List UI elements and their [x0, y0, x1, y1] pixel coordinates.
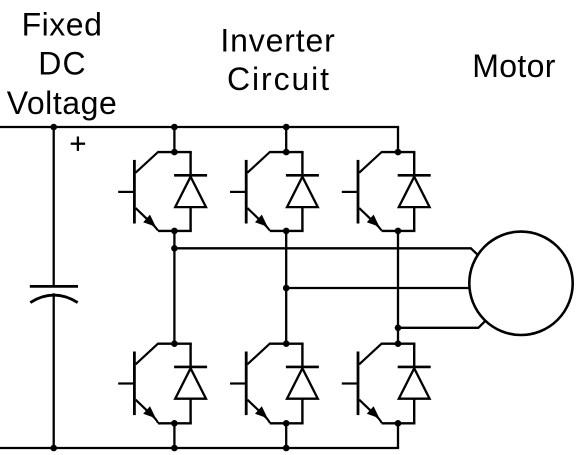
node junction capacitor / bottom bus	[50, 445, 57, 452]
svg-text:Inverter: Inverter	[220, 22, 335, 58]
wire collector segment Q4	[270, 343, 304, 345]
node emitter junction lower device leg C	[395, 420, 402, 427]
label Inverter Circuit	[220, 22, 335, 97]
node phase C output	[395, 325, 402, 332]
node junction capacitor / top bus	[50, 124, 57, 131]
wire collector segment Q5	[382, 151, 416, 153]
capacitor C1	[30, 286, 78, 302]
node junction leg A / bottom bus	[171, 445, 178, 452]
label Fixed DC Voltage	[7, 7, 118, 121]
diode D1	[174, 152, 207, 231]
wire leg A bottom (lower device to bottom bus)	[173, 423, 175, 448]
diode D4	[286, 344, 319, 424]
wire bottom DC bus (-)	[0, 447, 399, 449]
diode D5	[398, 152, 431, 231]
transistor Q1	[118, 152, 158, 231]
wire collector segment Q3	[270, 151, 304, 153]
transistor Q4	[230, 343, 270, 423]
wire collector segment Q6	[382, 343, 416, 345]
transistor Q2	[118, 343, 158, 423]
transistor Q3	[230, 152, 270, 231]
label Motor	[472, 48, 556, 84]
diode D6	[398, 344, 431, 424]
node collector junction lower device leg A	[171, 340, 178, 347]
wire leg A top drop (bus to upper device)	[173, 127, 175, 152]
svg-text:Voltage: Voltage	[7, 85, 118, 121]
wire top DC bus (+)	[0, 126, 399, 128]
wire leg C top drop (bus to upper device)	[397, 127, 399, 152]
svg-text:Motor: Motor	[472, 48, 556, 84]
wire emitter segment Q5	[382, 230, 416, 232]
svg-text:Fixed: Fixed	[22, 7, 103, 43]
wire leg B top drop (bus to upper device)	[285, 127, 287, 152]
node phase B output	[283, 285, 290, 292]
motor M1	[469, 232, 572, 335]
wire phase B output to motor	[286, 287, 470, 289]
wire capacitor bottom lead	[53, 293, 55, 448]
wire emitter segment Q4	[270, 422, 304, 424]
wire leg A middle (upper device to lower device)	[173, 231, 175, 344]
node collector junction upper device leg A	[171, 149, 178, 156]
node collector junction upper device leg C	[395, 149, 402, 156]
diode D2	[174, 344, 207, 424]
node junction leg B / bottom bus	[283, 445, 290, 452]
node collector junction lower device leg B	[283, 340, 290, 347]
wire emitter segment Q1	[158, 230, 192, 232]
node phase A output	[171, 245, 178, 252]
wire leg B middle (upper device to lower device)	[285, 231, 287, 344]
wire leg C middle (upper device to lower device)	[397, 231, 399, 344]
node collector junction upper device leg B	[283, 149, 290, 156]
wire emitter segment Q6	[382, 422, 416, 424]
wire phase C output to motor	[398, 321, 486, 328]
node junction leg A / top bus	[171, 124, 178, 131]
wire phase A output to motor	[174, 248, 478, 255]
node emitter junction upper device leg B	[283, 228, 290, 235]
wire leg B bottom (lower device to bottom bus)	[285, 423, 287, 448]
wire leg C bottom (lower device to bottom bus)	[397, 423, 399, 448]
svg-text:Circuit: Circuit	[227, 61, 331, 97]
transistor Q6	[342, 343, 382, 423]
wire collector segment Q1	[158, 151, 192, 153]
node emitter junction lower device leg B	[283, 420, 290, 427]
wire emitter segment Q2	[158, 422, 192, 424]
node emitter junction upper device leg C	[395, 228, 402, 235]
svg-text:DC: DC	[38, 46, 87, 82]
label + polarity	[71, 137, 85, 151]
diode D3	[286, 152, 319, 231]
transistor Q5	[342, 152, 382, 231]
wire collector segment Q2	[158, 343, 192, 345]
node emitter junction lower device leg A	[171, 420, 178, 427]
node collector junction lower device leg C	[395, 340, 402, 347]
node junction leg B / top bus	[283, 124, 290, 131]
wire emitter segment Q3	[270, 230, 304, 232]
wire capacitor top lead	[53, 127, 55, 286]
node emitter junction upper device leg A	[171, 228, 178, 235]
